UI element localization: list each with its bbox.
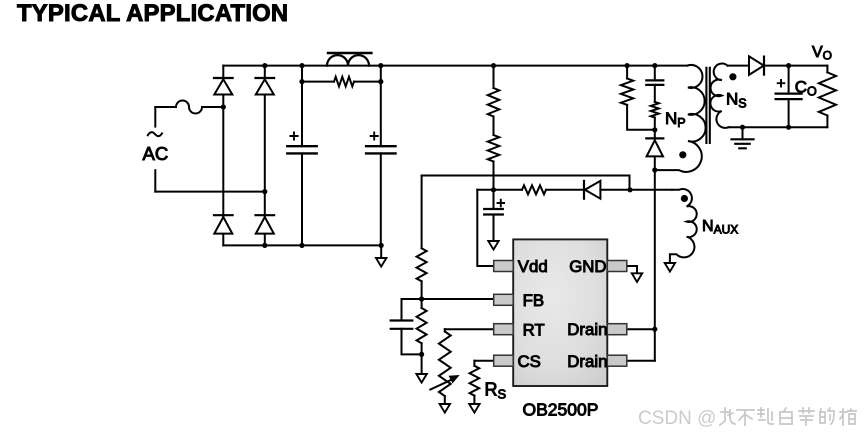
node resistor-cap2 bbox=[378, 79, 383, 84]
svg-text:RS: RS bbox=[485, 380, 507, 402]
pin label GND bbox=[569, 257, 606, 276]
wire CS to pin bbox=[474, 360, 493, 362]
snubber diode bbox=[646, 130, 663, 170]
AC source label bbox=[143, 132, 169, 164]
node primary bottom bbox=[652, 167, 657, 172]
node snubber bottom bbox=[652, 127, 657, 132]
output diode bbox=[749, 56, 764, 75]
ground vdd cap bbox=[488, 241, 498, 250]
transformer secondary Ns bbox=[710, 64, 728, 128]
wire drain column bbox=[654, 170, 656, 361]
node rail-snubber-res bbox=[625, 63, 630, 68]
pin label Drain lower bbox=[567, 352, 607, 371]
filter inductor L1 bbox=[327, 55, 369, 65]
node rail-cap1 bbox=[299, 63, 304, 68]
node secondary-gnd bbox=[740, 125, 745, 130]
FB capacitor bbox=[391, 299, 422, 354]
pin label Drain upper bbox=[567, 320, 607, 339]
ground RT pot bbox=[440, 404, 450, 413]
svg-text:TYPICAL APPLICATION: TYPICAL APPLICATION bbox=[17, 0, 288, 27]
wire bottom rail bbox=[223, 244, 381, 246]
inductor core bar bbox=[328, 52, 371, 54]
ground aux bbox=[665, 263, 675, 272]
svg-text:FB: FB bbox=[523, 291, 544, 310]
FB lower resistor bbox=[417, 299, 427, 354]
svg-text:NS: NS bbox=[726, 90, 747, 111]
secondary phase dot bbox=[729, 73, 736, 80]
wire secondary top bbox=[728, 65, 750, 67]
snubber small resistor bbox=[651, 102, 659, 130]
snubber capacitor bbox=[646, 66, 663, 102]
bulk capacitor C1 plates bbox=[287, 132, 316, 153]
svg-text:GND: GND bbox=[569, 257, 606, 276]
bridge diode top-left bbox=[214, 78, 233, 95]
aux phase dot bbox=[681, 195, 688, 202]
svg-text:Drain: Drain bbox=[567, 320, 607, 339]
wire cap2 column bbox=[380, 66, 382, 246]
sense resistor Rs bbox=[470, 361, 480, 404]
wire FB-chain top bbox=[422, 176, 630, 190]
node bottom-bridge-right bbox=[262, 243, 267, 248]
wire drain1 bbox=[627, 328, 655, 330]
fuse F1 bbox=[155, 101, 223, 114]
wire cap1 column bbox=[301, 66, 303, 246]
node rail-startup bbox=[491, 63, 496, 68]
label Np bbox=[665, 109, 686, 130]
svg-text:CO: CO bbox=[795, 78, 817, 99]
startup resistor upper bbox=[488, 66, 500, 117]
pin label FB bbox=[523, 291, 544, 310]
label Vo bbox=[812, 44, 832, 63]
label Ns bbox=[726, 90, 747, 111]
vdd series resistor bbox=[522, 185, 546, 194]
node AC-bottom to bridge bbox=[262, 189, 267, 194]
IC pins bbox=[494, 261, 627, 367]
wire AC left lower bbox=[154, 170, 156, 191]
label Co bbox=[795, 78, 817, 99]
vdd capacitor (+) bbox=[484, 190, 504, 241]
transformer core bbox=[706, 68, 709, 143]
node rail-cap2 bbox=[378, 63, 383, 68]
startup resistor lower bbox=[488, 117, 500, 190]
potentiometer arrow bbox=[430, 375, 459, 390]
wire resistor-diode bbox=[546, 189, 584, 191]
damping resistor across L1 bbox=[302, 77, 381, 87]
ground GND pin bbox=[632, 273, 642, 282]
node output cap top bbox=[786, 63, 791, 68]
wire diode-aux bbox=[600, 189, 672, 191]
wire top rail bbox=[223, 65, 687, 67]
pin label RT bbox=[523, 320, 545, 339]
primary phase dot bbox=[679, 151, 686, 158]
pin label Vdd bbox=[518, 257, 548, 276]
wire bridge left column bbox=[222, 66, 224, 246]
svg-text:RT: RT bbox=[523, 320, 545, 339]
wire AC bottom bbox=[155, 191, 264, 193]
node resistor-cap1 bbox=[299, 79, 304, 84]
node fuse to bridge bbox=[221, 104, 226, 109]
title TYPICAL APPLICATION bbox=[17, 0, 288, 27]
node Co bottom bbox=[786, 125, 791, 130]
FB upper resistor bbox=[417, 176, 427, 300]
bridge diode bottom-right bbox=[256, 215, 275, 233]
node bottom-cap1 bbox=[299, 243, 304, 248]
vdd diode (cathode left) bbox=[584, 181, 600, 199]
bridge diode top-right bbox=[256, 78, 275, 95]
svg-text:AC: AC bbox=[143, 143, 169, 164]
bulk capacitor C2 plates bbox=[366, 132, 395, 153]
wire diode to Vo bbox=[764, 65, 828, 67]
label Rs bbox=[485, 380, 507, 402]
node rail-bridge-right bbox=[262, 63, 267, 68]
wire vdd branch down bbox=[477, 190, 493, 266]
ground FB chain bbox=[416, 354, 426, 382]
ground main rail bbox=[376, 245, 386, 266]
node FB bbox=[419, 296, 424, 301]
wire bridge right column bbox=[264, 66, 266, 246]
node bottom-cap2-gnd bbox=[379, 243, 384, 248]
load resistor bbox=[819, 66, 836, 128]
wire drain2 bbox=[627, 360, 655, 362]
node drain bbox=[652, 327, 657, 332]
transformer primary Np bbox=[655, 65, 706, 172]
svg-text:NAUX: NAUX bbox=[702, 218, 738, 237]
svg-text:Drain: Drain bbox=[567, 352, 607, 371]
wire AC left upper bbox=[154, 107, 156, 127]
node startup-vdd junction bbox=[491, 187, 496, 192]
svg-text:NP: NP bbox=[665, 109, 686, 130]
snubber resistor bbox=[621, 66, 655, 130]
svg-text:OB2500P: OB2500P bbox=[523, 400, 599, 420]
ground Rs bbox=[469, 404, 479, 413]
label Naux bbox=[702, 218, 738, 237]
bridge diode bottom-left bbox=[214, 215, 233, 233]
svg-text:VO: VO bbox=[812, 44, 832, 63]
wire GND pin bbox=[627, 266, 637, 273]
node aux-wire corner bbox=[627, 187, 632, 192]
svg-text:CS: CS bbox=[518, 352, 541, 371]
label OB2500P bbox=[523, 400, 599, 420]
aux winding Naux bbox=[670, 189, 697, 263]
svg-text:Vdd: Vdd bbox=[518, 257, 548, 276]
wire secondary bottom bbox=[729, 126, 828, 128]
wire RT to pin bbox=[445, 328, 494, 330]
watermark CSDN bbox=[638, 408, 856, 429]
node rail-snubber-cap bbox=[652, 63, 657, 68]
node FB-cap bottom bbox=[419, 352, 424, 357]
op IC U1 OB2500P body bbox=[513, 239, 607, 386]
wire FB to pin bbox=[422, 298, 494, 300]
svg-text:CSDN @: CSDN @ bbox=[638, 408, 716, 429]
earth ground secondary bbox=[732, 127, 754, 148]
pin label CS bbox=[518, 352, 541, 371]
wire vdd corner bbox=[477, 189, 522, 191]
RT potentiometer resistor bbox=[439, 329, 451, 404]
output capacitor Co bbox=[776, 66, 802, 128]
